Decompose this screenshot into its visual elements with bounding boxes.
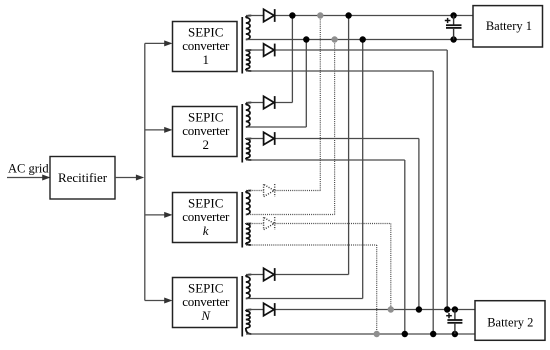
- wire C2 out: [246, 138, 419, 140]
- transformer TN core bar: [241, 276, 243, 337]
- junction C1 on bus C: [444, 306, 450, 312]
- junction cap1 bottom on bus B: [450, 36, 456, 42]
- junction Bk on bus B (dotted): [331, 36, 337, 42]
- svg-text:Recitifier: Recitifier: [58, 170, 108, 185]
- svg-text:Battery 2: Battery 2: [487, 315, 533, 329]
- arrowhead into SEPIC k: [164, 212, 172, 218]
- wire Bk riser up: [334, 40, 336, 215]
- wire bus A (T1 diode out to Battery 1 +): [246, 15, 473, 17]
- transformer Tk winding 1: [246, 191, 252, 215]
- wire A2 riser up: [291, 16, 293, 103]
- svg-text:1: 1: [202, 52, 209, 67]
- transformer TN winding 1: [246, 275, 252, 299]
- wire branch to SEPIC 2: [145, 129, 166, 131]
- wire BN riser up: [362, 40, 364, 299]
- wire AN riser up: [348, 16, 350, 275]
- wire bus C (TN diode out to Battery 2 +): [246, 309, 475, 311]
- wire B2 riser up: [305, 40, 307, 128]
- diode D1c (winding 2, to Battery 2 bus): [264, 44, 275, 57]
- junction D1 on bus D: [430, 331, 436, 337]
- transformer Tk core bar: [241, 192, 243, 248]
- wire rectifier output: [115, 177, 138, 179]
- wire C1 out: [246, 49, 447, 51]
- capacitor C_B2 with + polarity: [446, 310, 462, 335]
- transformer TN winding 2: [246, 310, 252, 335]
- diode DNc (winding 2, to Battery 2 bus): [264, 303, 275, 316]
- junction D2 on bus D: [402, 331, 408, 337]
- svg-text:converter: converter: [182, 294, 230, 309]
- wire D2 return: [246, 159, 405, 161]
- SEPIC converter N box: [173, 278, 238, 328]
- wire Dk riser down: [376, 245, 378, 334]
- wire branch to SEPIC N: [145, 300, 166, 302]
- junction A2 on bus A: [289, 12, 295, 18]
- diode DNa (winding 1, to Battery 1 bus): [264, 268, 275, 281]
- junction Ak on bus A (dotted): [317, 12, 323, 18]
- transformer T1 winding 2: [246, 50, 252, 71]
- svg-text:N: N: [200, 308, 211, 323]
- svg-text:converter: converter: [182, 38, 230, 53]
- svg-text:Battery 1: Battery 1: [486, 19, 532, 33]
- battery 1 box: [473, 6, 543, 47]
- junction Dk on bus D (dotted): [374, 331, 380, 337]
- wire AC grid to rectifier: [7, 177, 44, 179]
- wire Ck out: [246, 223, 391, 225]
- arrowhead into SEPIC 2: [164, 127, 172, 133]
- junction BN on bus B: [360, 36, 366, 42]
- transformer T2 winding 2: [246, 139, 252, 161]
- transformer T2 winding 1: [246, 103, 252, 128]
- diode Dkc (winding 2, to Battery 2 bus): [264, 217, 275, 230]
- wire C2 riser down: [418, 139, 420, 310]
- diode D2a (winding 1, to Battery 1 bus): [264, 96, 275, 109]
- node AC grid label: [8, 162, 49, 176]
- svg-text:converter: converter: [182, 209, 230, 224]
- svg-text:k: k: [203, 223, 209, 238]
- wire BN return: [246, 298, 363, 300]
- junction cap2 top on bus C: [452, 306, 458, 312]
- arrowhead into DC bus: [136, 175, 144, 181]
- junction cap2 bottom on bus D: [452, 331, 458, 337]
- junction AN on bus A: [345, 12, 351, 18]
- wire Ck riser down: [390, 224, 392, 310]
- wire D1 riser down: [432, 71, 434, 334]
- diode Dka (winding 1, to Battery 1 bus): [264, 184, 275, 197]
- wire B2 return: [246, 126, 306, 128]
- junction Ck on bus C (dotted): [388, 306, 394, 312]
- wire Bk return: [246, 214, 335, 216]
- wire Ak out: [246, 190, 320, 192]
- wire bus D (TN return to Battery 2 -): [246, 333, 475, 335]
- wire Ak riser up: [319, 16, 321, 191]
- wire D2 riser down: [404, 160, 406, 334]
- transformer T2 core bar: [241, 104, 243, 163]
- wire branch to SEPIC 1: [145, 42, 166, 44]
- diode D2c (winding 2, to Battery 2 bus): [264, 132, 275, 145]
- svg-text:2: 2: [202, 137, 209, 152]
- battery 2 box: [475, 301, 545, 341]
- svg-text:converter: converter: [182, 123, 230, 138]
- transformer T1 core bar: [241, 17, 243, 74]
- transformer T1 winding 1: [246, 16, 252, 40]
- wire AN out: [246, 274, 349, 276]
- wire D1 return: [246, 70, 433, 72]
- arrowhead into SEPIC N: [164, 298, 172, 304]
- wire A2 out: [246, 102, 292, 104]
- rectifier box: [50, 157, 115, 200]
- arrowhead into SEPIC 1: [164, 40, 172, 46]
- wire C1 riser down: [446, 50, 448, 310]
- transformer Tk winding 2: [246, 224, 252, 246]
- junction C2 on bus C: [416, 306, 422, 312]
- junction B2 on bus B: [303, 36, 309, 42]
- wire branch to SEPIC k: [145, 214, 166, 216]
- junction cap1 top on bus A: [450, 12, 456, 18]
- wire bus B (T1 return to Battery 1 -): [246, 39, 473, 41]
- SEPIC converter 1 box: [173, 22, 238, 72]
- diode D1a (winding 1, to Battery 1 bus): [264, 9, 275, 22]
- capacitor C_B1 with + polarity: [445, 16, 462, 40]
- wire DC distribution bus: [144, 43, 146, 300]
- SEPIC converter 2 box: [173, 107, 238, 157]
- svg-text:AC grid: AC grid: [8, 162, 49, 176]
- SEPIC converter k box: [173, 193, 238, 243]
- wire Dk return: [246, 244, 377, 246]
- arrowhead into rectifier: [42, 175, 50, 181]
